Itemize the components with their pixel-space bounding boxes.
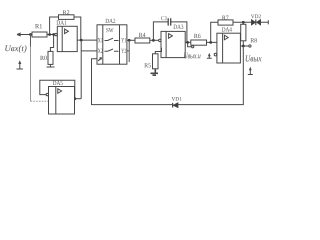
switch block DA2 — [97, 19, 127, 64]
grey wire input to DA5 — [30, 35, 32, 47]
wire DA5 feedback — [40, 80, 75, 98]
wire DA3 out — [185, 41, 217, 43]
node C1 branch — [152, 39, 155, 42]
op-amp DA3 integrator — [159, 25, 186, 58]
node R6 right — [209, 41, 212, 44]
wire control pin — [92, 59, 98, 105]
wire R0 branch — [50, 35, 53, 52]
wire R2 feedback left — [50, 17, 59, 35]
control pin glyph — [98, 58, 101, 61]
wire to X2 — [81, 50, 97, 52]
op-amp DA1 — [55, 21, 77, 52]
resistor R4 — [135, 38, 150, 43]
terminal circle Uвых — [249, 45, 251, 47]
probe at output — [248, 69, 253, 75]
probe at integrator output — [207, 55, 212, 58]
test tap circle Uвых.и — [188, 42, 192, 46]
switch contact 2 — [105, 49, 119, 51]
wire DA4 out down to bottom feedback — [178, 46, 243, 105]
node DA1 output — [77, 39, 97, 41]
node R2 branch — [48, 33, 51, 36]
resistor R6 — [191, 40, 207, 45]
ground under R0 — [47, 64, 55, 67]
label Uвых — [246, 56, 262, 62]
diode pair VD2 — [251, 15, 268, 26]
node R7/R8/VD2 — [242, 21, 245, 24]
switch contact 1 — [105, 38, 119, 40]
wire R8 to output node — [242, 41, 244, 46]
resistor R2 — [59, 15, 75, 20]
resistor R8 — [242, 22, 244, 24]
wire VD1 to SW control — [92, 104, 173, 106]
ground under R5 — [151, 69, 159, 75]
op-amp DA5 — [46, 81, 74, 114]
resistor R0 — [48, 51, 53, 64]
probe symbol at input — [17, 63, 24, 70]
resistor R5 to ground — [155, 48, 161, 54]
label Uвых.и — [184, 53, 200, 59]
capacitor C1 feedback — [153, 22, 187, 43]
wire DA1 out down to X2 and DA5 — [80, 40, 82, 99]
wire R7 right to node — [233, 21, 252, 23]
wire input to R1 — [31, 34, 33, 36]
diode VD1 — [172, 97, 182, 108]
op-amp DA4 — [214, 27, 240, 63]
wire DA4 output — [240, 45, 248, 47]
resistor R7 — [218, 20, 233, 25]
node Y1/Y2 — [128, 39, 131, 42]
wire R1 to DA1 — [47, 34, 55, 36]
input terminal arrow Uвх(t) — [17, 33, 30, 36]
resistor R1 — [32, 32, 47, 37]
node input junction — [29, 33, 32, 36]
wire R7 feedback — [211, 22, 218, 42]
node DA3 output — [186, 41, 189, 44]
label Uвх(t) — [5, 45, 26, 53]
wire Y1 to R4 — [127, 39, 135, 41]
wire to DA5 output node — [75, 98, 82, 100]
wire R2 right down to DA1 output — [74, 17, 81, 40]
node R0 branch — [52, 33, 55, 36]
wire Y2 join — [127, 40, 129, 62]
wire R4 to DA3 — [150, 39, 159, 41]
